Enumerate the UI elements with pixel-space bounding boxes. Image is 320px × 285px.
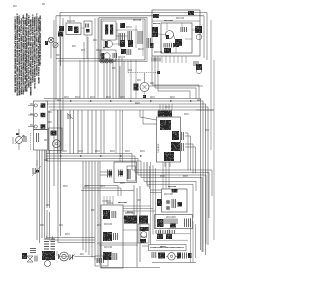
svg-text:WH-WHITE YL-YELLOW CODES PER C: WH-WHITE YL-YELLOW CODES PER COMPONENT L…	[29, 20, 31, 97]
svg-text:SEE COMPONENT LISTING FOR RATI: SEE COMPONENT LISTING FOR RATINGS OF EAC…	[39, 16, 42, 66]
svg-text:THE OFF POSITION DOOR SWITCH S: THE OFF POSITION DOOR SWITCH SHOWN OPENE…	[21, 15, 23, 96]
svg-text:CONTROL: CONTROL	[158, 142, 160, 153]
